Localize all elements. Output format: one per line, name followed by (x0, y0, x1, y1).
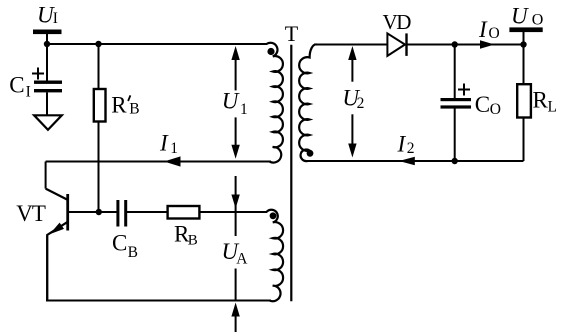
wire top rail (47, 43, 267, 45)
resistor RL (517, 84, 531, 117)
wire base to node (69, 211, 117, 213)
node top rail at R'B (95, 41, 101, 47)
svg-text:U: U (511, 3, 529, 28)
label I1 (159, 130, 178, 157)
svg-text:A: A (236, 250, 248, 267)
terminal bar U_I (33, 30, 62, 35)
wire CO bottom (454, 109, 456, 162)
label IO (478, 17, 500, 42)
label R'B (111, 92, 139, 117)
voltage arrow U1 lower (231, 117, 239, 158)
svg-text:2: 2 (357, 95, 365, 112)
plus sign of CO (458, 84, 470, 96)
label UA (222, 239, 249, 267)
transformer feedback winding NB (267, 210, 284, 301)
wire node to capacitor CI (46, 44, 48, 81)
wire secondary bottom (307, 160, 524, 162)
wire R'B down to base node (98, 122, 100, 213)
svg-text:C: C (9, 73, 24, 98)
arrow I2 on wire pointing left (399, 157, 415, 166)
label U2 (342, 85, 364, 112)
polarity dot primary top (267, 48, 274, 55)
node CO top (452, 41, 458, 47)
label CB (112, 231, 138, 261)
wire secondary top to diode (314, 44, 387, 46)
svg-text:VT: VT (16, 201, 46, 226)
resistor R'B (94, 89, 106, 122)
voltage arrow UA lower (points up at bottom wire) (231, 269, 239, 332)
label U1 (222, 89, 248, 118)
svg-text:R: R (533, 88, 549, 113)
svg-text:C: C (475, 92, 490, 117)
transistor VT emitter lead (47, 221, 68, 300)
wire bottom return (46, 236, 48, 301)
transformer core (290, 45, 292, 302)
voltage arrow U1 upper (231, 46, 239, 90)
label RB (174, 222, 198, 249)
polarity dot secondary bottom (307, 150, 314, 157)
capacitor CO plates (441, 98, 472, 101)
wire rail to R'B (98, 44, 100, 89)
label RL (533, 88, 557, 116)
capacitor CI plates (34, 81, 62, 84)
wire RL to bottom (523, 118, 525, 162)
svg-text:I: I (26, 83, 31, 100)
svg-text:T: T (285, 21, 299, 46)
transformer primary winding N1 (267, 43, 283, 163)
svg-text:I: I (478, 17, 488, 42)
svg-text:B: B (128, 244, 138, 261)
wire diode to output (407, 44, 524, 46)
svg-text:I: I (159, 130, 169, 155)
transformer secondary winding N2 (299, 44, 316, 161)
ground symbol (34, 115, 62, 130)
svg-text:I: I (53, 10, 58, 27)
node at input rail left (44, 41, 50, 47)
wire U_I bar to node (46, 34, 48, 44)
voltage arrow UA upper (points down at base wire) (231, 176, 239, 236)
wire CB to RB (127, 211, 168, 213)
wire CO top (454, 45, 456, 99)
svg-text:O: O (490, 101, 501, 118)
diode VD (387, 33, 405, 56)
wire UO bar to node (523, 32, 525, 45)
svg-text:VD: VD (383, 10, 412, 34)
wire output down to RL (523, 45, 525, 85)
node output (520, 41, 526, 47)
svg-text:2: 2 (407, 140, 415, 157)
node CO bottom (452, 158, 458, 164)
svg-text:C: C (112, 231, 127, 256)
resistor RB (168, 206, 200, 219)
wire collector feed (I1 wire) (46, 161, 271, 163)
svg-text:L: L (548, 99, 557, 116)
wire collector drop (45, 162, 47, 189)
node base junction (96, 209, 102, 215)
voltage arrow U2 lower (348, 114, 356, 157)
wire CI to ground (46, 92, 48, 114)
svg-text:B: B (129, 100, 139, 117)
voltage arrow U2 upper (348, 46, 356, 82)
label CO (475, 92, 501, 118)
arrow IO on wire pointing right (480, 40, 495, 48)
svg-text:R: R (111, 92, 127, 117)
svg-text:I: I (397, 132, 407, 157)
polarity dot feedback winding (270, 212, 277, 219)
transistor VT collector lead (46, 189, 67, 200)
arrow I1 on wire pointing left (164, 156, 181, 166)
label U_I (37, 2, 58, 27)
svg-text:O: O (489, 25, 500, 42)
svg-text:U: U (222, 89, 240, 114)
label C_I (9, 73, 30, 101)
transistor VT base bar (66, 194, 69, 231)
terminal bar UO (509, 27, 542, 32)
svg-text:1: 1 (170, 140, 178, 157)
svg-text:B: B (188, 232, 198, 248)
label UO (511, 3, 543, 28)
plus sign of CI (32, 68, 44, 80)
svg-text:1: 1 (240, 101, 248, 118)
capacitor CB plates (116, 200, 119, 227)
wire RB to feedback winding (199, 211, 267, 213)
label I2 (397, 132, 415, 158)
svg-text:O: O (532, 12, 544, 29)
transistor VT emitter arrow (50, 223, 65, 235)
